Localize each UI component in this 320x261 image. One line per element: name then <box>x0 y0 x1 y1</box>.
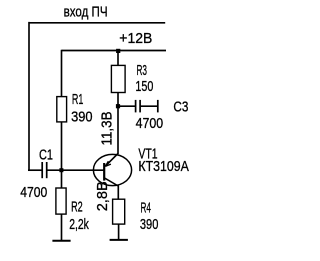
resistor R2 body <box>56 188 66 214</box>
wire C3 left lead <box>118 105 135 107</box>
svg-text:КТ3109А: КТ3109А <box>138 159 189 175</box>
junction base node <box>59 168 63 172</box>
svg-text:R4: R4 <box>141 201 152 217</box>
wire R2 bottom lead <box>61 214 63 240</box>
svg-text:4700: 4700 <box>20 185 47 201</box>
ground under R2 <box>52 240 70 242</box>
wire R4 bottom lead <box>118 224 120 240</box>
svg-text:2,8В: 2,8В <box>95 181 111 211</box>
svg-text:390: 390 <box>71 110 93 126</box>
wire left vertical from input line down to C1 <box>28 22 30 170</box>
wire collector vertical <box>117 186 119 200</box>
svg-text:R1: R1 <box>72 92 84 108</box>
svg-text:C1: C1 <box>39 147 53 163</box>
svg-text:11,3В: 11,3В <box>100 111 116 145</box>
svg-text:4700: 4700 <box>136 116 164 132</box>
resistor R3 body <box>111 65 125 92</box>
svg-text:150: 150 <box>135 79 153 95</box>
transistor VT1 base bar <box>103 163 105 181</box>
wire base lead from C1 junction to transistor <box>47 169 104 171</box>
node IF input top line <box>29 22 165 24</box>
junction +12V / R3 <box>116 49 120 53</box>
wire R1 bottom lead <box>61 122 63 170</box>
transistor VT1 emitter diagonal <box>105 154 118 167</box>
wire emitter vertical <box>117 106 119 154</box>
wire R3 top lead <box>117 51 119 66</box>
wire R1 top lead <box>61 50 63 97</box>
resistor R4 body <box>113 199 125 224</box>
svg-text:+12В: +12В <box>119 31 152 47</box>
capacitor C3 plates <box>136 100 141 113</box>
node +12V rail <box>62 50 167 52</box>
svg-text:вход ПЧ: вход ПЧ <box>64 4 108 20</box>
svg-text:2,2k: 2,2k <box>69 217 89 233</box>
wire C3 right lead to output terminal <box>140 105 157 107</box>
svg-text:R2: R2 <box>71 200 83 216</box>
resistor R1 body <box>57 97 67 122</box>
transistor VT1 emitter arrow (PNP) <box>105 161 111 166</box>
junction emitter / C3 <box>116 104 120 108</box>
wire R2 top lead <box>61 170 63 188</box>
wire R3 bottom lead <box>117 93 119 107</box>
capacitor C1 plates <box>42 162 47 178</box>
svg-text:390: 390 <box>140 217 159 233</box>
svg-text:R3: R3 <box>137 63 148 79</box>
transistor VT1 circle <box>93 154 131 185</box>
wire C1 left lead <box>28 169 42 171</box>
svg-text:C3: C3 <box>173 100 188 116</box>
transistor VT1 collector diagonal <box>104 178 118 186</box>
ground under R4 <box>110 239 128 241</box>
output terminal bar after C3 <box>157 100 159 113</box>
